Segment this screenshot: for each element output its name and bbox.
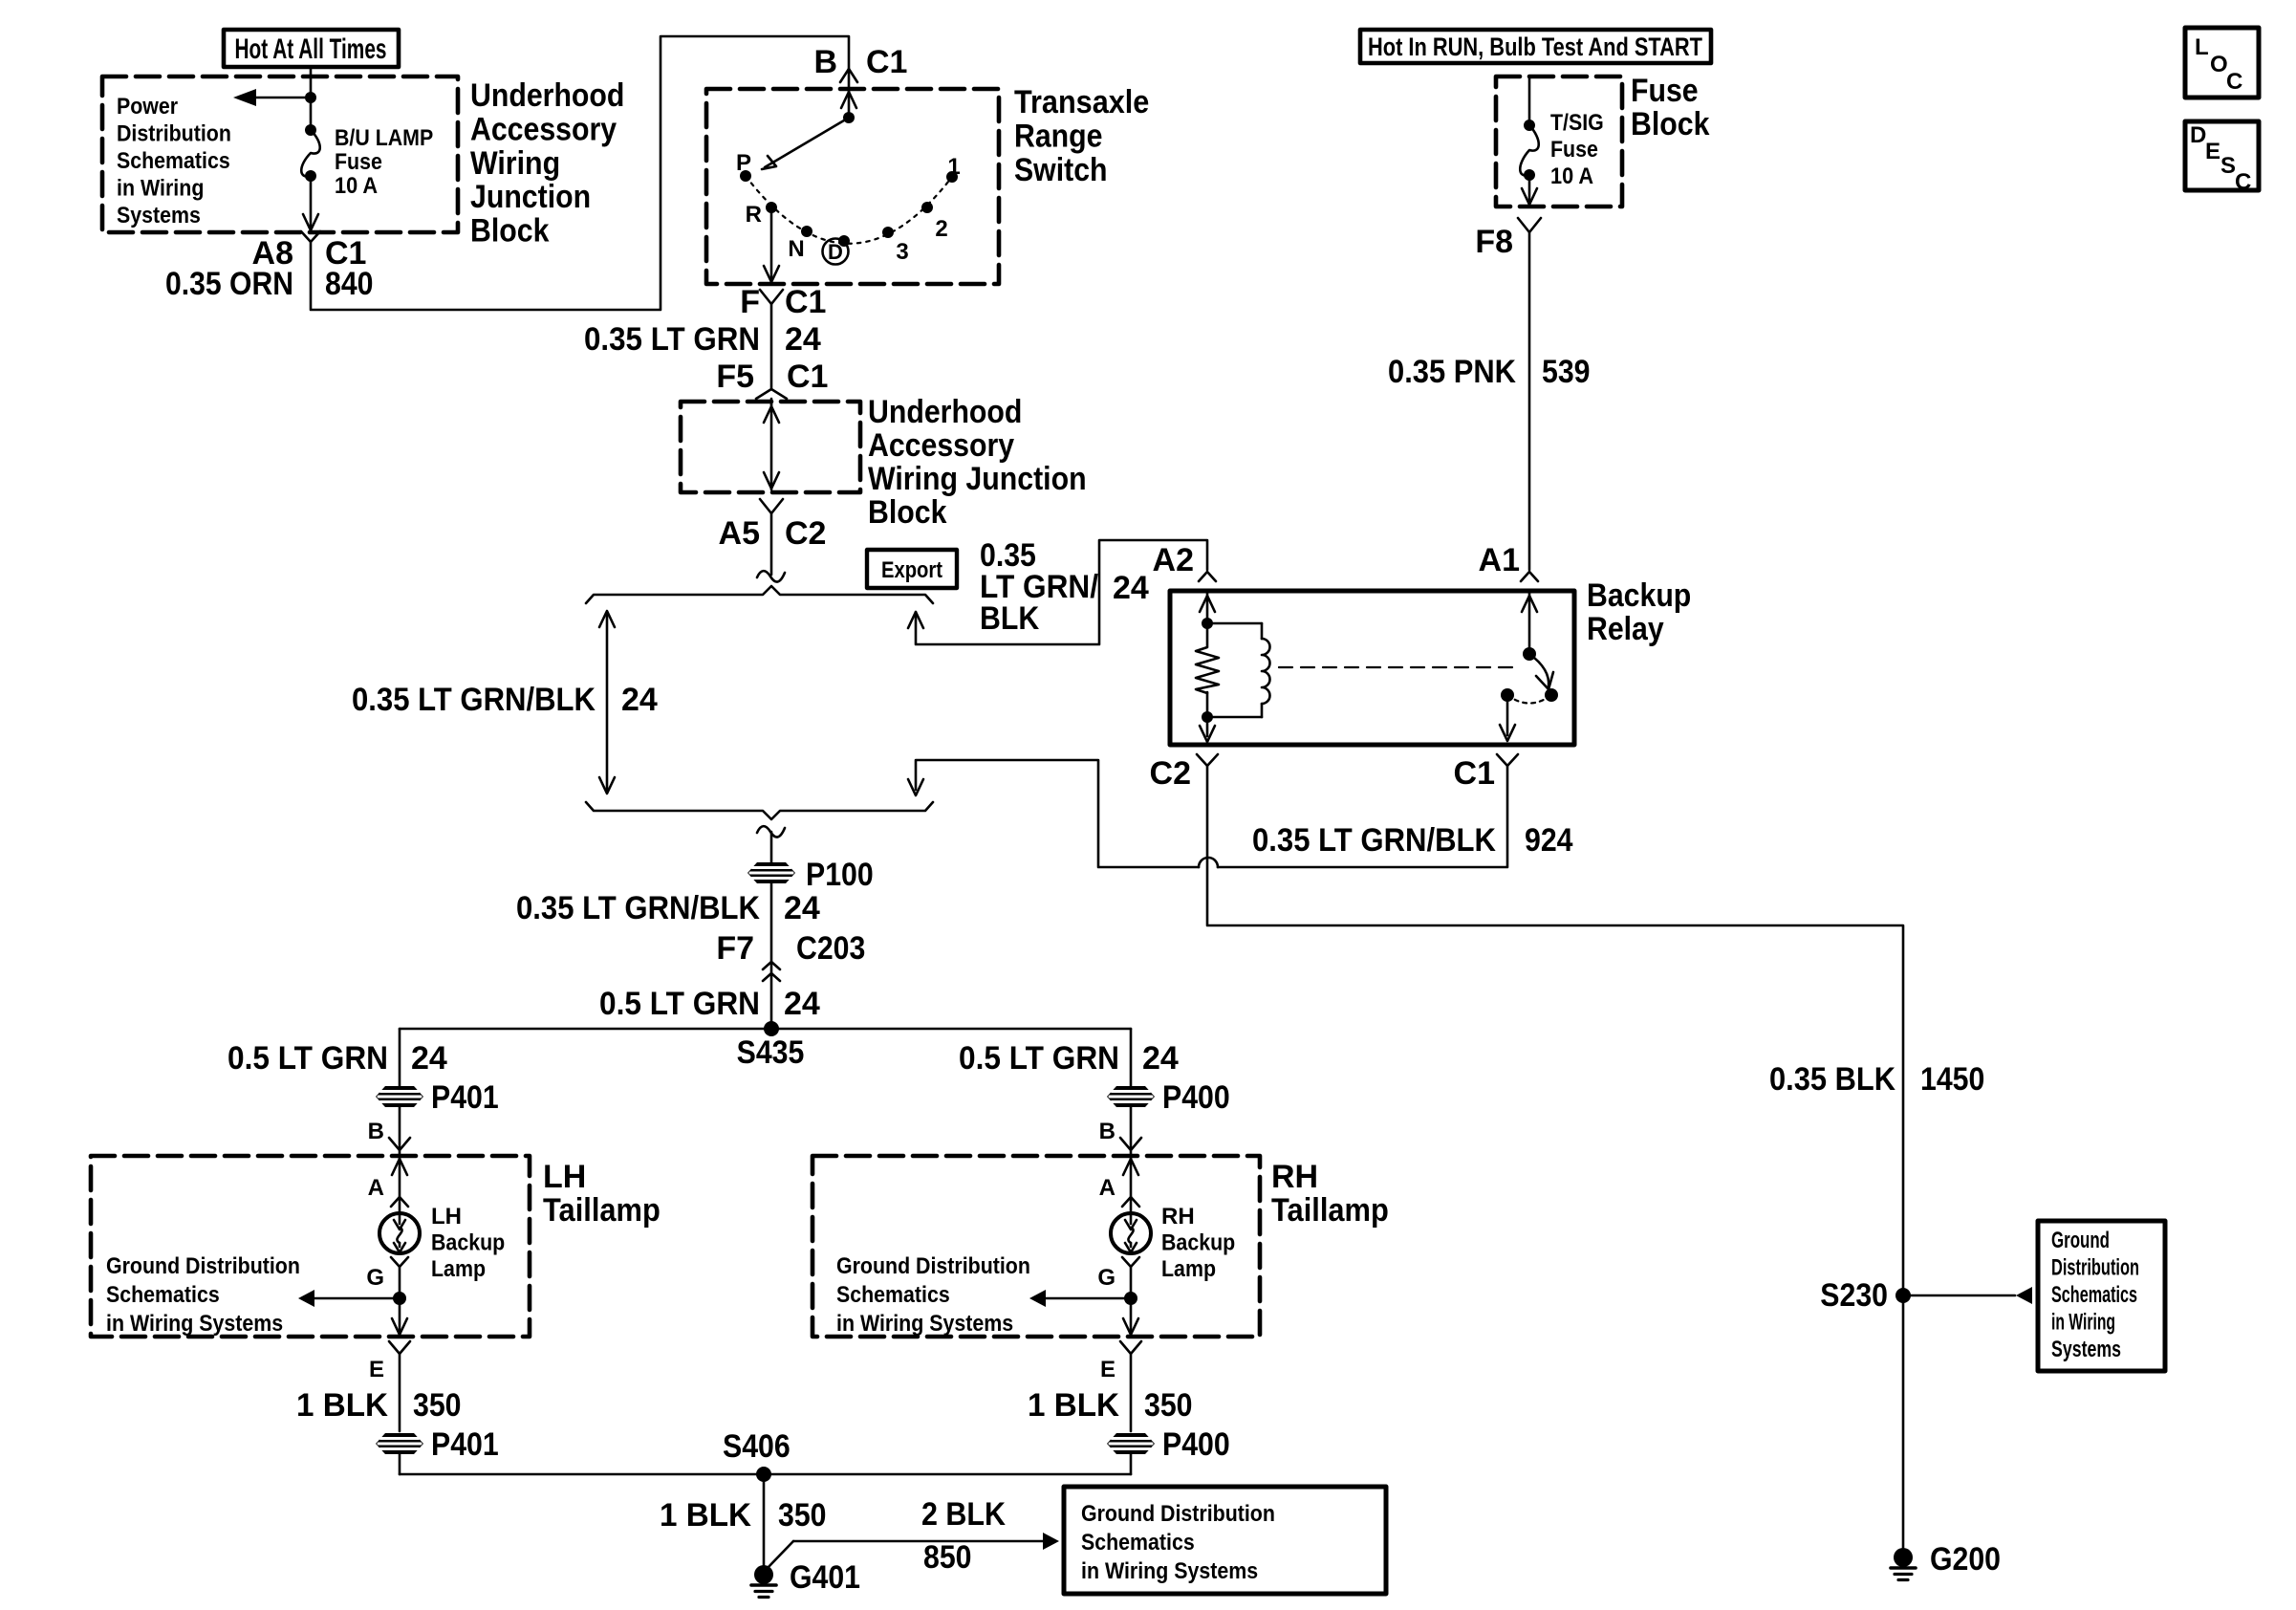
svg-text:A: A (1099, 1175, 1116, 1201)
svg-text:Accessory: Accessory (470, 111, 617, 147)
svg-text:Systems: Systems (117, 203, 201, 228)
svg-text:Schematics: Schematics (106, 1282, 220, 1308)
svg-text:Backup: Backup (431, 1230, 505, 1256)
svg-text:C203: C203 (796, 930, 865, 967)
svg-text:Block: Block (868, 494, 946, 531)
svg-text:Backup: Backup (1587, 577, 1691, 614)
svg-text:Wiring: Wiring (470, 145, 560, 182)
svg-text:P400: P400 (1162, 1079, 1230, 1116)
svg-text:A5: A5 (719, 515, 760, 552)
svg-text:2 BLK: 2 BLK (921, 1496, 1006, 1533)
svg-text:10 A: 10 A (1550, 163, 1593, 189)
svg-text:Lamp: Lamp (1161, 1256, 1216, 1282)
svg-text:C1: C1 (1454, 755, 1495, 792)
svg-text:24: 24 (1142, 1040, 1179, 1077)
svg-text:Fuse: Fuse (1631, 73, 1699, 109)
svg-text:0.35 LT GRN/BLK: 0.35 LT GRN/BLK (516, 890, 760, 926)
svg-text:S435: S435 (737, 1034, 805, 1071)
svg-text:C2: C2 (785, 515, 826, 552)
svg-text:E: E (2205, 139, 2220, 164)
svg-text:Junction: Junction (470, 179, 591, 215)
svg-text:B: B (813, 44, 837, 80)
svg-text:A2: A2 (1153, 542, 1194, 578)
svg-text:F8: F8 (1475, 224, 1513, 260)
svg-text:G: G (1097, 1265, 1116, 1291)
svg-text:LH: LH (431, 1204, 462, 1229)
svg-text:Power: Power (117, 94, 178, 120)
svg-text:C2: C2 (1150, 755, 1191, 792)
svg-text:1450: 1450 (1920, 1061, 1984, 1098)
svg-text:Switch: Switch (1014, 152, 1108, 188)
svg-text:Distribution: Distribution (2051, 1255, 2139, 1281)
svg-text:G200: G200 (1930, 1541, 2001, 1577)
svg-text:S: S (2220, 153, 2236, 179)
svg-text:Transaxle: Transaxle (1014, 84, 1149, 120)
svg-text:Distribution: Distribution (117, 121, 231, 147)
svg-text:C1: C1 (785, 284, 826, 320)
svg-text:350: 350 (778, 1497, 827, 1534)
svg-text:1: 1 (947, 154, 960, 180)
svg-text:1 BLK: 1 BLK (660, 1497, 751, 1534)
svg-text:0.35 BLK: 0.35 BLK (1769, 1061, 1895, 1098)
svg-text:Schematics: Schematics (1081, 1530, 1195, 1556)
svg-text:in Wiring Systems: in Wiring Systems (836, 1311, 1013, 1337)
svg-text:B: B (368, 1119, 384, 1144)
svg-text:in Wiring: in Wiring (117, 176, 204, 202)
svg-text:24: 24 (621, 682, 658, 718)
svg-text:24: 24 (784, 986, 820, 1022)
svg-text:Systems: Systems (2051, 1337, 2121, 1362)
svg-text:350: 350 (1144, 1387, 1193, 1424)
svg-text:F5: F5 (716, 359, 754, 395)
svg-text:539: 539 (1542, 354, 1591, 390)
svg-text:R: R (746, 202, 762, 228)
svg-text:0.5 LT GRN: 0.5 LT GRN (227, 1040, 388, 1077)
svg-text:Fuse: Fuse (335, 149, 382, 175)
svg-text:N: N (788, 236, 804, 262)
svg-text:0.5 LT GRN: 0.5 LT GRN (959, 1040, 1119, 1077)
svg-text:Taillamp: Taillamp (543, 1192, 661, 1229)
svg-text:P401: P401 (431, 1079, 499, 1116)
svg-text:C1: C1 (866, 44, 907, 80)
svg-text:1 BLK: 1 BLK (296, 1387, 388, 1424)
svg-text:0.5 LT GRN: 0.5 LT GRN (599, 986, 760, 1022)
svg-text:Underhood: Underhood (470, 77, 624, 114)
svg-text:Underhood: Underhood (868, 394, 1022, 430)
svg-text:P100: P100 (806, 857, 874, 893)
svg-text:RH: RH (1271, 1159, 1318, 1195)
svg-text:1 BLK: 1 BLK (1028, 1387, 1119, 1424)
svg-text:24: 24 (785, 321, 821, 358)
svg-text:in Wiring Systems: in Wiring Systems (106, 1311, 283, 1337)
svg-text:BLK: BLK (980, 600, 1040, 637)
svg-text:924: 924 (1525, 822, 1573, 859)
svg-text:Schematics: Schematics (2051, 1282, 2137, 1308)
svg-text:Fuse: Fuse (1550, 137, 1598, 163)
svg-text:A: A (368, 1175, 384, 1201)
svg-text:T/SIG: T/SIG (1550, 110, 1604, 136)
svg-text:Accessory: Accessory (868, 427, 1014, 464)
svg-text:Ground Distribution: Ground Distribution (1081, 1501, 1275, 1527)
svg-text:10 A: 10 A (335, 173, 378, 199)
svg-text:0.35 ORN: 0.35 ORN (165, 266, 293, 302)
svg-text:F: F (740, 284, 760, 320)
svg-text:Export: Export (881, 557, 942, 583)
svg-text:24: 24 (784, 890, 820, 926)
svg-text:S230: S230 (1820, 1277, 1888, 1314)
svg-text:C: C (2226, 69, 2242, 95)
svg-text:Lamp: Lamp (431, 1256, 486, 1282)
svg-text:24: 24 (411, 1040, 447, 1077)
svg-text:Range: Range (1014, 118, 1103, 154)
svg-text:Ground Distribution: Ground Distribution (106, 1253, 300, 1279)
svg-text:G: G (366, 1265, 384, 1291)
svg-text:P400: P400 (1162, 1426, 1230, 1463)
svg-text:S406: S406 (723, 1428, 791, 1465)
svg-text:A1: A1 (1479, 542, 1520, 578)
svg-text:in Wiring: in Wiring (2051, 1310, 2115, 1336)
svg-text:350: 350 (413, 1387, 462, 1424)
svg-text:0.35 LT GRN/BLK: 0.35 LT GRN/BLK (1252, 822, 1496, 859)
svg-text:Taillamp: Taillamp (1271, 1192, 1389, 1229)
svg-text:Relay: Relay (1587, 611, 1664, 647)
svg-text:Schematics: Schematics (117, 148, 230, 174)
svg-text:2: 2 (935, 216, 947, 242)
svg-text:Block: Block (470, 213, 549, 250)
svg-text:LH: LH (543, 1159, 586, 1195)
svg-text:P401: P401 (431, 1426, 499, 1463)
svg-text:Schematics: Schematics (836, 1282, 950, 1308)
svg-text:L: L (2195, 34, 2209, 60)
svg-text:E: E (1100, 1357, 1116, 1382)
svg-text:D: D (828, 240, 843, 264)
svg-text:RH: RH (1161, 1204, 1195, 1229)
svg-text:C: C (2235, 169, 2251, 195)
svg-text:C1: C1 (787, 359, 828, 395)
svg-text:B: B (1099, 1119, 1116, 1144)
svg-text:Hot In RUN, Bulb Test And STAR: Hot In RUN, Bulb Test And START (1368, 33, 1702, 61)
svg-text:Hot At All Times: Hot At All Times (235, 33, 387, 65)
svg-text:in Wiring Systems: in Wiring Systems (1081, 1558, 1258, 1584)
svg-text:Wiring Junction: Wiring Junction (868, 461, 1087, 497)
svg-text:Ground Distribution: Ground Distribution (836, 1253, 1030, 1279)
svg-text:24: 24 (1113, 570, 1149, 606)
svg-text:B/U LAMP: B/U LAMP (335, 125, 433, 151)
svg-text:E: E (369, 1357, 384, 1382)
svg-text:Backup: Backup (1161, 1230, 1235, 1256)
svg-text:Block: Block (1631, 106, 1709, 142)
svg-text:0.35 LT GRN: 0.35 LT GRN (584, 321, 760, 358)
svg-text:3: 3 (896, 239, 908, 265)
svg-text:D: D (2190, 122, 2206, 148)
svg-text:Ground: Ground (2051, 1228, 2110, 1253)
svg-text:840: 840 (325, 266, 374, 302)
svg-text:850: 850 (923, 1539, 972, 1576)
svg-text:P: P (736, 150, 751, 176)
svg-text:F7: F7 (716, 930, 754, 967)
svg-text:O: O (2210, 52, 2228, 77)
svg-text:0.35 LT GRN/BLK: 0.35 LT GRN/BLK (352, 682, 596, 718)
svg-text:G401: G401 (790, 1559, 860, 1596)
svg-text:0.35 PNK: 0.35 PNK (1388, 354, 1516, 390)
